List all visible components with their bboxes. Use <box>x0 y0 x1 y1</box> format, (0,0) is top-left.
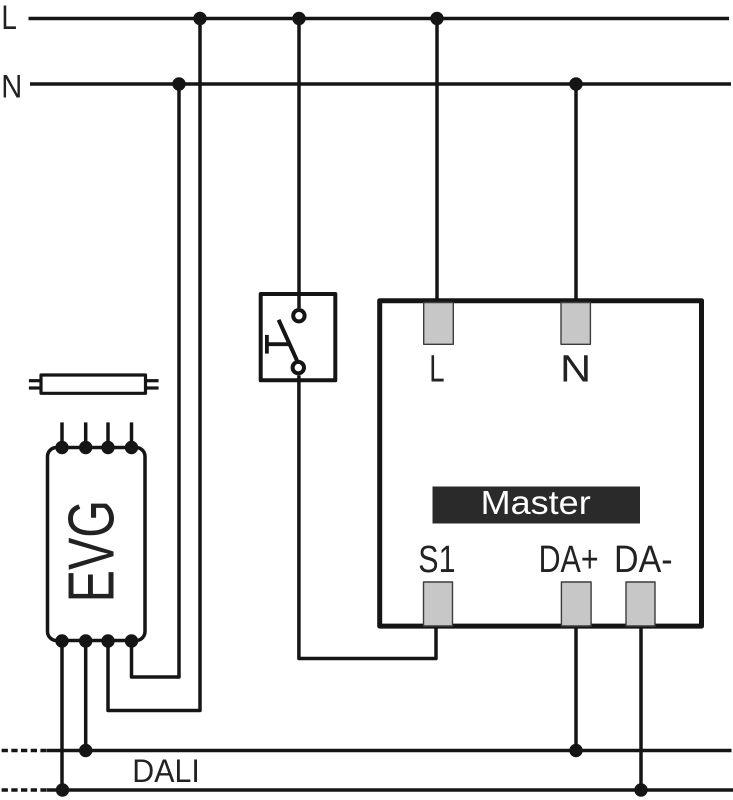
EVG top pin dot 3 <box>101 441 114 454</box>
node: junction L / switch riser <box>292 12 305 25</box>
svg-text:Master: Master <box>481 484 591 521</box>
node: DALI minus / EVG junction <box>56 783 69 796</box>
switch bottom contact <box>293 362 304 373</box>
wire: master DA- to DALI minus bus <box>639 628 643 790</box>
wire: EVG DA2 to DALI plus bus <box>84 641 88 750</box>
wire: master DA+ to DALI plus bus <box>574 628 578 750</box>
master terminal L (clamp) <box>424 303 454 345</box>
node: junction N / master-N riser <box>569 77 582 90</box>
EVG top pin dot 1 <box>55 441 68 454</box>
bus: DALI plus line (dashed left stub) <box>2 749 47 753</box>
wire: switch bottom to master terminal S1 <box>299 375 436 658</box>
node: DALI minus / master junction <box>634 783 647 796</box>
switch enclosure box <box>261 294 336 380</box>
switch push actuator plate <box>265 335 269 354</box>
lamp LA (fluorescent tube) <box>29 375 159 393</box>
svg-text:EVG: EVG <box>55 500 127 602</box>
node: junction L / master-L riser <box>430 12 443 25</box>
master terminal N (clamp) <box>561 303 590 345</box>
ballast EVG <box>48 422 146 647</box>
EVG top pin dot 2 <box>79 441 92 454</box>
svg-text:DA+: DA+ <box>539 539 599 581</box>
wire: N line to master terminal N <box>574 84 578 303</box>
node: junction L / EVG riser <box>193 12 206 25</box>
EVG top pin dot 4 <box>125 441 138 454</box>
lamp pin left bottom <box>29 386 41 389</box>
EVG lamp lead 2 <box>84 422 88 447</box>
svg-text:DALI: DALI <box>132 753 200 789</box>
svg-text:S1: S1 <box>418 539 455 581</box>
EVG bottom pin dot DA1 <box>55 634 68 647</box>
svg-text:N: N <box>1 69 22 105</box>
switch top contact lead <box>297 293 301 308</box>
master terminal DA+ (clamp) <box>561 582 591 626</box>
lamp tube body <box>41 375 146 393</box>
svg-text:L: L <box>1 0 17 37</box>
master control unit (DALI Master) <box>380 301 702 626</box>
push-button switch S <box>261 293 336 380</box>
node: DALI plus / EVG junction <box>79 744 92 757</box>
master name plate <box>433 487 641 524</box>
switch lever <box>279 320 297 361</box>
master body <box>380 301 702 626</box>
node: junction N / EVG riser <box>172 77 185 90</box>
node: DALI plus / master junction <box>569 744 582 757</box>
bus: DALI minus line (dashed left stub) <box>2 788 47 792</box>
master terminal S1 (clamp) <box>424 582 453 626</box>
wire: EVG DA1 to DALI minus bus <box>60 641 64 790</box>
switch top contact <box>293 310 304 321</box>
wire: L line to push-button top contact <box>297 19 301 309</box>
lamp pin left top <box>29 379 41 382</box>
EVG lamp lead 3 <box>106 422 110 447</box>
lamp pin right bottom <box>146 386 159 389</box>
EVG bottom pin dot L <box>101 634 114 647</box>
master terminal DA- (clamp) <box>626 582 655 626</box>
wire: L line to master terminal L <box>435 19 439 304</box>
bus: DALI minus line <box>47 788 733 792</box>
wire: N line to EVG pin N (riser x=179, elbow y=677) <box>132 84 180 677</box>
EVG lamp lead 1 <box>60 422 64 447</box>
EVG lamp lead 4 <box>130 422 134 447</box>
switch push actuator link <box>267 342 290 346</box>
svg-text:DA-: DA- <box>614 539 673 581</box>
wire: mains L line <box>29 17 730 21</box>
EVG body <box>48 448 146 641</box>
EVG bottom pin dot N <box>125 634 138 647</box>
svg-text:L: L <box>429 349 444 391</box>
wire: mains N line <box>30 82 731 86</box>
lamp pin right top <box>146 379 159 382</box>
EVG bottom pin dot DA2 <box>79 634 92 647</box>
svg-text:N: N <box>560 349 591 391</box>
wire: L line to EVG pin L (riser x=200, elbow y=710.5) <box>108 19 200 711</box>
bus: DALI plus line <box>47 749 732 753</box>
